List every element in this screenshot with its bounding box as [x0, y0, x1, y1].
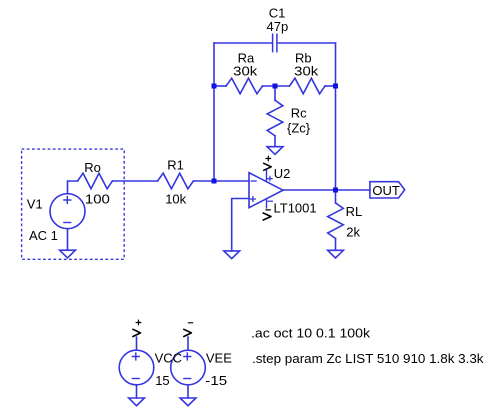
svg-text:30k: 30k [294, 64, 319, 79]
wire top right (C1 right lead) [278, 42, 336, 44]
svg-text:AC 1: AC 1 [29, 228, 58, 243]
svg-text:100: 100 [85, 191, 110, 206]
svg-text:OUT: OUT [372, 183, 400, 198]
ground (under V1) [60, 250, 76, 258]
resistor Ro [78, 173, 113, 189]
wire V1 to Ro [68, 181, 78, 194]
port OUT [370, 182, 405, 198]
svg-text:30k: 30k [233, 64, 258, 79]
wire Ro to R1 [112, 180, 157, 182]
svg-text:{Zc}: {Zc} [287, 120, 311, 135]
ground (under op-amp + input) [224, 251, 240, 259]
wire top left (C1 left lead) [214, 42, 272, 44]
svg-text:LT1001: LT1001 [274, 200, 317, 215]
svg-text:.step param Zc LIST 510 910 1.: .step param Zc LIST 510 910 1.8k 3.3k [252, 351, 484, 366]
wire Rc bottom lead [274, 136, 276, 147]
svg-text:-15: -15 [205, 373, 227, 388]
wire Rc top lead [274, 86, 276, 100]
net name + (op-amp V+) [266, 156, 271, 161]
resistor Rb [290, 78, 326, 94]
node (Ra left / feedback) [212, 84, 217, 89]
ground (under VCC) [129, 398, 145, 406]
wire RL bottom lead [335, 238, 337, 250]
svg-text:R1: R1 [167, 157, 184, 172]
net name + (VCC) [136, 320, 141, 325]
op-amp U2 [249, 170, 283, 208]
svg-text:V1: V1 [27, 196, 43, 211]
wire RL top lead [335, 190, 337, 203]
ground (under VEE) [180, 398, 196, 406]
svg-text:2k: 2k [346, 224, 360, 239]
voltage source VEE [171, 337, 206, 398]
svg-text:.ac oct 10 0.1 100k: .ac oct 10 0.1 100k [251, 326, 371, 341]
svg-text:Ro: Ro [84, 160, 101, 175]
net flag + chevron (VCC) [133, 329, 141, 336]
resistor Ra [226, 78, 263, 94]
net name - (VEE) [188, 322, 192, 324]
net flag - chevron (VEE) [184, 329, 192, 336]
wire Ra-Rb middle [263, 85, 290, 87]
wire Ra left lead [214, 85, 226, 87]
net flag V- chevron (op-amp) [263, 213, 271, 220]
svg-text:U2: U2 [274, 166, 291, 181]
svg-text:VEE: VEE [206, 350, 232, 365]
resistor RL [328, 203, 344, 239]
svg-text:47p: 47p [267, 19, 289, 34]
net name - (op-amp V-) [266, 209, 270, 211]
voltage source VCC [119, 337, 154, 398]
wire R1 to op-amp inverting input [193, 180, 249, 182]
voltage source V1 [50, 194, 85, 229]
resistor R1 [158, 173, 194, 189]
svg-text:VCC: VCC [155, 350, 182, 365]
node (Rb right) [333, 84, 338, 89]
node (inverting input) [212, 179, 217, 184]
net flag V+ chevron (op-amp) [264, 163, 272, 170]
node (output junction) [333, 188, 338, 193]
wire op-amp output to OUT [283, 189, 370, 191]
svg-text:RL: RL [346, 204, 363, 219]
wire Rb right lead [325, 85, 336, 87]
wire left vertical feedback [213, 43, 215, 181]
resistor Rc [267, 100, 283, 136]
svg-text:Rc: Rc [291, 105, 307, 120]
svg-text:10k: 10k [165, 191, 186, 206]
capacitor C1 [273, 34, 277, 51]
wire V1 bottom to ground [67, 229, 69, 251]
node (Ra-Rb junction) [273, 84, 278, 89]
ground (under Rc) [267, 147, 283, 155]
wire right vertical (output to C1) [335, 43, 337, 190]
wire op-amp noninverting input to ground [232, 199, 249, 251]
ground (under RL) [328, 250, 344, 258]
svg-text:15: 15 [155, 373, 169, 388]
dashed source box [22, 149, 125, 259]
